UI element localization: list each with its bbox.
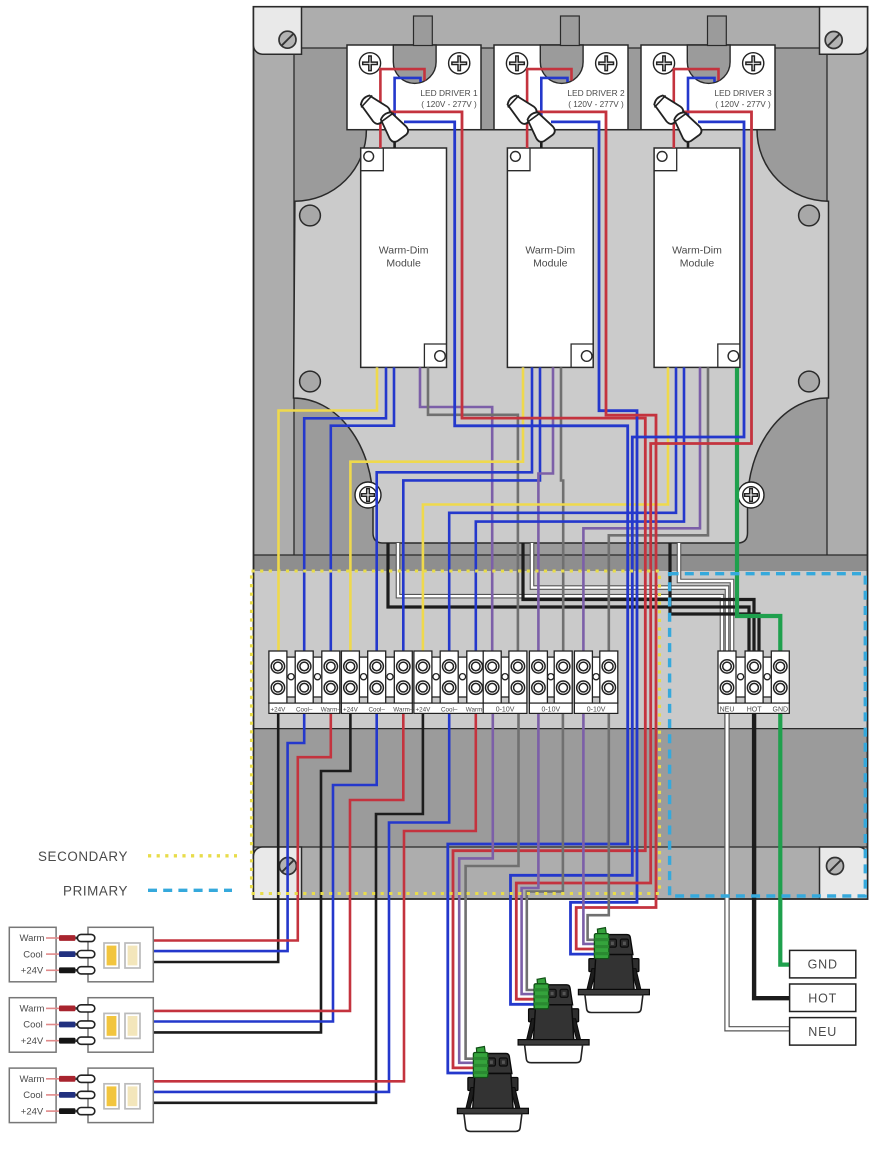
- HOT label box: [790, 984, 856, 1012]
- wire module1 Warm- to block1: [331, 367, 394, 655]
- wire driver3 red to downlight2: [516, 112, 751, 999]
- wire nut 1a: [357, 91, 392, 126]
- wire module3 dim- to 0-10V block3: [609, 367, 708, 655]
- plate bolt hole top-left: [300, 205, 321, 226]
- svg-text:GND: GND: [808, 958, 838, 972]
- svg-text:Cool–: Cool–: [441, 706, 458, 713]
- LED strip 2 cool LED chip: [125, 1013, 140, 1038]
- strip 3 Cool lead: [46, 1094, 60, 1096]
- terminal block 0-10V 2: [529, 651, 572, 713]
- svg-text:+24V: +24V: [415, 706, 431, 713]
- svg-text:Warm–: Warm–: [393, 706, 414, 713]
- wire block1 Warm to strip1: [153, 713, 330, 941]
- LED strip 2 tape box: [88, 998, 153, 1052]
- warm-dim module 3: [654, 148, 740, 367]
- wire module2 dim- to 0-10V block2: [561, 367, 563, 655]
- terminal block 1 (+24V Cool- Warm-): [269, 651, 341, 713]
- svg-text:SECONDARY: SECONDARY: [38, 849, 128, 864]
- svg-text:Cool: Cool: [23, 949, 43, 960]
- wire block1 Cool to strip1: [153, 713, 304, 951]
- svg-text:Warm-Dim: Warm-Dim: [672, 245, 722, 257]
- corner tab bottom-right with screw: [820, 847, 868, 899]
- LED driver 2 box: [494, 16, 628, 130]
- svg-text:0-10V: 0-10V: [587, 706, 606, 713]
- wire driver3 blue to downlight2: [511, 122, 745, 1004]
- svg-text:+24V: +24V: [21, 1036, 44, 1047]
- wire module1 dim+ to 0-10V block1: [420, 367, 492, 655]
- wire block3 Cool to strip3: [153, 713, 449, 1092]
- LED strip 3 label box: [9, 1068, 56, 1123]
- svg-text:PRIMARY: PRIMARY: [63, 884, 128, 899]
- wire module3 dim+ to 0-10V block3: [583, 367, 700, 655]
- wire HOT driver 3 to terminal: [670, 543, 759, 655]
- corner tab top-right with screw: [820, 7, 868, 54]
- svg-text:GND: GND: [773, 706, 789, 713]
- svg-text:Cool: Cool: [23, 1020, 43, 1031]
- svg-text:Cool–: Cool–: [368, 706, 385, 713]
- wire driver 3 red lead through notch: [674, 69, 719, 148]
- svg-text:Module: Module: [680, 258, 715, 270]
- terminal block NEU HOT GND: [718, 651, 789, 713]
- wire block2 Cool to strip2: [153, 713, 376, 1022]
- wire HOT driver 2 to terminal: [523, 543, 754, 655]
- svg-text:0-10V: 0-10V: [496, 706, 515, 713]
- LED strip 1 tape box: [88, 927, 153, 982]
- LED strip 1 cool LED chip: [125, 943, 140, 968]
- wire driver2 red to downlight3: [536, 112, 656, 949]
- wire driver 2 black stub to module: [540, 128, 543, 148]
- wire 0-10V block1 dim+ to downlight1: [459, 713, 493, 1063]
- wire driver 1 black stub to module: [393, 128, 396, 148]
- svg-text:+24V: +24V: [21, 1107, 44, 1118]
- warm-dim module 1: [361, 148, 447, 367]
- plate screw tab right: [738, 482, 764, 508]
- wire NEU driver 3 to terminal (white): [679, 543, 732, 655]
- wire module3 Cool- to block3: [449, 367, 676, 655]
- corner tab bottom-left with screw: [254, 847, 302, 899]
- wire module2 Cool- to block2: [377, 367, 532, 655]
- svg-text:Cool–: Cool–: [296, 706, 313, 713]
- wire module1 Cool- to block1: [304, 367, 386, 655]
- wire nut 2a: [503, 91, 538, 126]
- svg-text:+24V: +24V: [343, 706, 359, 713]
- enclosure outer frame: [254, 7, 868, 899]
- downlight fixture 2: [518, 978, 589, 1063]
- LED strip 1 label box: [9, 927, 56, 982]
- wire module2 Warm- to block2: [403, 367, 540, 655]
- LED strip 3 cool LED chip: [125, 1084, 140, 1109]
- svg-text:HOT: HOT: [747, 706, 763, 713]
- wire 0-10V block3 dim+ to downlight3: [583, 713, 594, 944]
- LED strip 2 warm LED chip: [104, 1013, 119, 1038]
- svg-text:LED DRIVER 3: LED DRIVER 3: [714, 88, 772, 98]
- wire driver1 red to downlight1: [389, 112, 645, 1068]
- wire NEU terminal to NEU box (white): [727, 713, 790, 1029]
- wire block3 Warm to strip3: [153, 713, 476, 1081]
- wire driver 3 black stub to module: [687, 128, 690, 148]
- wire GND terminal to GND box: [780, 713, 789, 965]
- svg-text:( 120V - 277V ): ( 120V - 277V ): [568, 100, 624, 109]
- wire driver1 blue to downlight1: [404, 122, 628, 1073]
- svg-text:Warm: Warm: [20, 1003, 45, 1014]
- strip 3 +24V lead: [46, 1110, 60, 1112]
- wire module2 dim+ to 0-10V block2: [538, 367, 553, 655]
- wire driver 2 red lead through notch: [527, 69, 571, 148]
- wire nut 2b: [523, 108, 557, 144]
- wire module3 Warm- to block3: [476, 367, 684, 655]
- svg-text:Cool: Cool: [23, 1090, 43, 1101]
- svg-text:0-10V: 0-10V: [541, 706, 560, 713]
- strip 1 Warm lead: [46, 937, 60, 939]
- svg-text:( 120V - 277V ): ( 120V - 277V ): [421, 100, 477, 109]
- wire nut 1b: [376, 108, 410, 144]
- wire NEU driver 2 to terminal (white): [532, 543, 727, 655]
- wire 0-10V block3 dim- to downlight3: [588, 713, 609, 940]
- corner tab top-left with screw: [254, 7, 302, 54]
- wire 0-10V block2 dim- to downlight2: [527, 713, 563, 990]
- wire nut 3a: [650, 91, 685, 126]
- svg-text:+24V: +24V: [21, 966, 44, 977]
- downlight fixture 1: [457, 1047, 528, 1132]
- svg-text:Module: Module: [386, 258, 421, 270]
- svg-text:NEU: NEU: [808, 1025, 837, 1039]
- svg-text:LED DRIVER 1: LED DRIVER 1: [420, 88, 478, 98]
- svg-text:Warm-Dim: Warm-Dim: [525, 245, 575, 257]
- enclosure panel seam lines: [254, 48, 868, 847]
- svg-text:NEU: NEU: [720, 706, 735, 713]
- mounting plate: [294, 130, 829, 543]
- wire block1 +24V to strip1: [153, 713, 278, 962]
- legend SECONDARY dotted sample: [148, 854, 237, 857]
- strip 3 Warm lead: [46, 1078, 60, 1080]
- wire driver 1 red lead through notch: [380, 69, 424, 148]
- svg-text:+24V: +24V: [270, 706, 286, 713]
- wire nut 3b: [670, 108, 704, 144]
- wire module3 +24V to block3: [423, 367, 668, 655]
- svg-text:( 120V - 277V ): ( 120V - 277V ): [715, 100, 771, 109]
- wire 0-10V block2 dim+ to downlight2: [522, 713, 539, 994]
- terminal block 2 (+24V Cool- Warm-): [341, 651, 413, 713]
- wire 0-10V block1 dim- to downlight1: [466, 713, 519, 1059]
- wire block2 Warm to strip2: [153, 713, 403, 1011]
- GND label box: [790, 950, 856, 978]
- plate bolt hole top-right: [799, 205, 820, 226]
- wire NEU driver 1 to terminal (white): [398, 543, 722, 655]
- LED driver 1 box: [347, 16, 481, 130]
- plate screw tab left: [355, 482, 381, 508]
- legend PRIMARY dashed sample: [148, 889, 232, 892]
- downlight fixture 3: [578, 928, 649, 1013]
- wire module2 +24V to block2: [350, 367, 523, 655]
- LED strip 2 label box: [9, 998, 56, 1052]
- terminal block 0-10V 1: [483, 651, 527, 713]
- terminal block 0-10V 3: [574, 651, 617, 713]
- wire driver 1 blue lead through notch: [395, 78, 421, 121]
- warm-dim module 2: [507, 148, 593, 367]
- terminal block 3 (+24V Cool- Warm-): [414, 651, 486, 713]
- wire driver 3 blue lead through notch: [688, 78, 715, 121]
- strip 2 Warm lead: [46, 1007, 60, 1009]
- LED strip 3 tape box: [88, 1068, 153, 1123]
- wire HOT driver 1 to terminal: [388, 543, 749, 655]
- LED strip 1 warm LED chip: [104, 943, 119, 968]
- strip 2 Cool lead: [46, 1024, 60, 1026]
- svg-text:HOT: HOT: [808, 991, 837, 1005]
- strip 2 +24V lead: [46, 1040, 60, 1042]
- SECONDARY zone dotted border: [252, 571, 660, 894]
- wire GND module 3 to terminal: [737, 368, 780, 655]
- svg-text:Warm–: Warm–: [321, 706, 342, 713]
- svg-text:Warm: Warm: [20, 933, 45, 944]
- svg-text:Warm: Warm: [20, 1074, 45, 1085]
- wire module1 dim- to 0-10V block1: [428, 367, 518, 655]
- NEU label box: [790, 1018, 856, 1046]
- plate bolt hole bottom-left: [300, 371, 321, 392]
- strip 1 Cool lead: [46, 953, 60, 955]
- wire module1 +24V to block1: [279, 367, 378, 655]
- plate bolt hole bottom-right: [799, 371, 820, 392]
- wire driver 2 blue lead through notch: [541, 78, 567, 121]
- strip 1 +24V lead: [46, 969, 60, 971]
- wire block3 +24V to strip3: [153, 713, 423, 1103]
- svg-text:Module: Module: [533, 258, 568, 270]
- svg-text:Warm-Dim: Warm-Dim: [379, 245, 429, 257]
- LED strip 3 warm LED chip: [104, 1084, 119, 1109]
- wire driver2 blue to downlight3: [551, 122, 637, 954]
- wire block2 +24V to strip2: [153, 713, 350, 1032]
- PRIMARY zone dashed border: [670, 574, 866, 896]
- wire HOT terminal to HOT box: [754, 713, 790, 998]
- svg-text:LED DRIVER 2: LED DRIVER 2: [567, 88, 625, 98]
- LED driver 3 box: [641, 16, 775, 130]
